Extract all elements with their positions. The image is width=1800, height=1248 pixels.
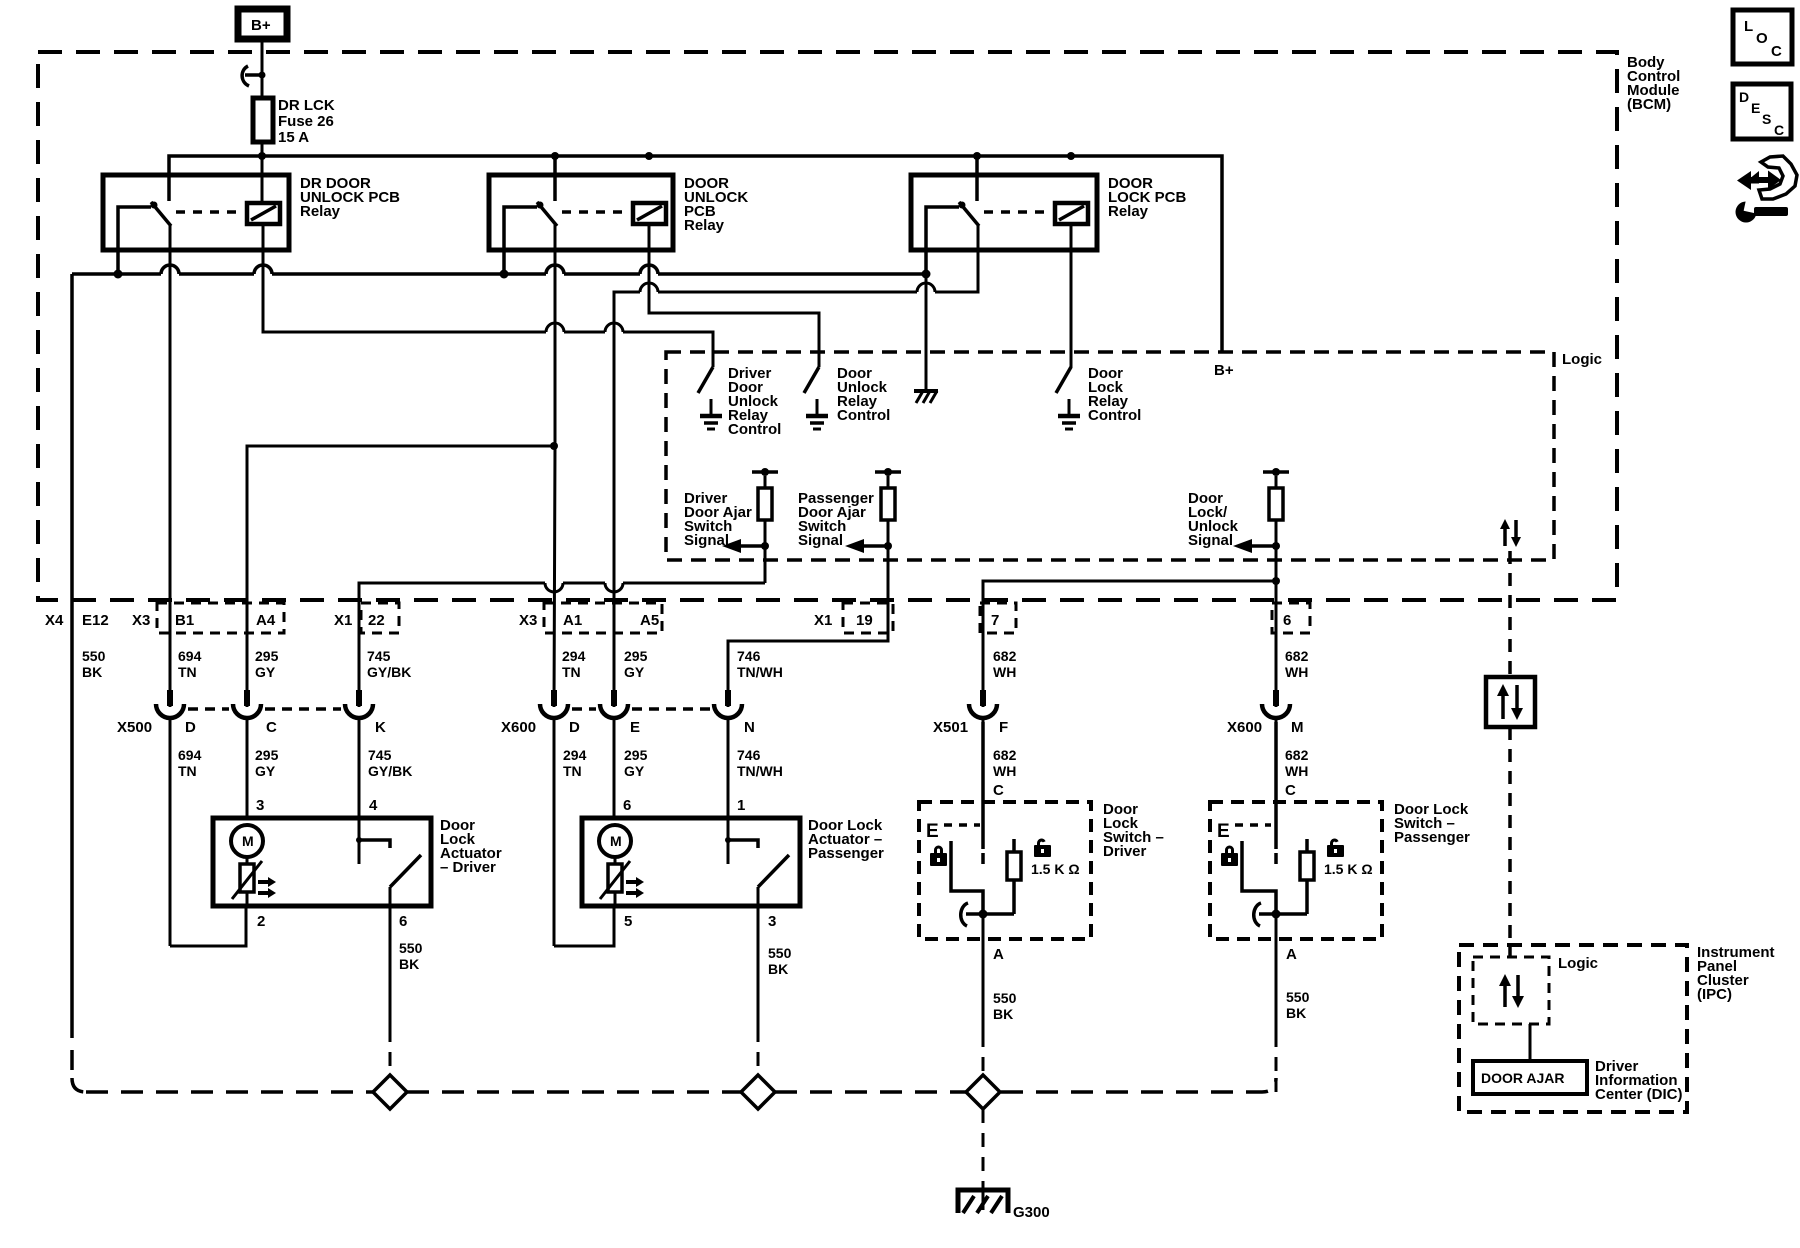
svg-text:550: 550	[399, 940, 423, 956]
padlock open passenger	[1327, 839, 1344, 857]
svg-text:B+: B+	[1214, 362, 1234, 379]
svg-text:6: 6	[623, 797, 631, 814]
svg-text:Logic: Logic	[1558, 955, 1598, 972]
svg-text:BK: BK	[768, 961, 788, 977]
label 550 BK passenger actuator	[768, 945, 792, 977]
lock switch passenger junction bar	[1259, 912, 1307, 916]
svg-text:550: 550	[82, 648, 106, 664]
svg-text:B+: B+	[251, 17, 271, 34]
wire diamond to G300	[982, 1109, 985, 1182]
wire ajar driver to pin22 jog	[359, 583, 765, 707]
svg-text:682: 682	[1285, 747, 1309, 763]
svg-text:745: 745	[367, 648, 391, 664]
padlock closed passenger	[1221, 846, 1238, 867]
svg-text:294: 294	[562, 648, 586, 664]
splice diamond passenger actuator	[741, 1075, 775, 1109]
svg-text:19: 19	[856, 612, 873, 629]
connector X600 M labels	[1227, 719, 1304, 736]
svg-text:3: 3	[768, 913, 776, 930]
svg-text:TN: TN	[563, 763, 582, 779]
svg-text:Signal: Signal	[1188, 532, 1233, 549]
node lock switch passenger common	[1272, 910, 1281, 919]
svg-text:(IPC): (IPC)	[1697, 986, 1732, 1003]
IPC label	[1697, 944, 1775, 1003]
svg-text:GY: GY	[255, 763, 276, 779]
svg-text:WH: WH	[1285, 763, 1308, 779]
wire fuse to B+ bus	[261, 142, 264, 203]
svg-text:WH: WH	[993, 763, 1016, 779]
relay K3 actuation dashed link	[984, 210, 1052, 214]
connector X500 labels	[117, 719, 386, 736]
svg-text:GY/BK: GY/BK	[367, 664, 411, 680]
transistor switch door-lock relay control	[1056, 352, 1080, 429]
relay K2 coil	[633, 203, 666, 224]
lock switch passenger input wire	[1274, 722, 1278, 864]
svg-text:682: 682	[993, 648, 1017, 664]
relay K2 actuation dashed link	[562, 210, 630, 214]
relay K1 coil	[247, 203, 280, 224]
svg-text:1: 1	[737, 797, 745, 814]
relay K1 switch arm	[118, 202, 171, 275]
node fuse/bus junction	[258, 152, 266, 160]
label driver door unlock relay control	[728, 365, 781, 438]
svg-text:C: C	[1285, 782, 1296, 799]
lock switch driver blade	[961, 903, 968, 926]
wire relay3 arm to logic chassis ground	[925, 274, 928, 389]
svg-text:746: 746	[737, 648, 761, 664]
svg-text:TN: TN	[562, 664, 581, 680]
svg-text:GY: GY	[624, 664, 645, 680]
wire relay3 coil to door-lock control	[1070, 224, 1073, 368]
wire serial data box to IPC dashed	[1508, 727, 1512, 957]
svg-text:D: D	[185, 719, 196, 736]
svg-text:E: E	[630, 719, 640, 736]
wire relay arms common bus	[72, 272, 926, 276]
svg-text:6: 6	[1283, 612, 1291, 629]
relay K1 DR DOOR UNLOCK PCB box	[103, 175, 289, 250]
svg-text:1.5 K Ω: 1.5 K Ω	[1324, 861, 1373, 877]
svg-text:295: 295	[255, 747, 279, 763]
arrow passenger door ajar switch signal	[845, 539, 888, 553]
wire ground-side E12 drop (550 BK)	[72, 274, 86, 1092]
svg-text:745: 745	[368, 747, 392, 763]
door lock switch passenger dashed box	[1210, 802, 1382, 939]
door lock switch driver dashed box	[919, 802, 1091, 939]
thermistor driver	[232, 857, 262, 906]
node arm bus relay2	[500, 270, 509, 279]
node lock switch driver common	[979, 910, 988, 919]
node bus to relay3 contact	[973, 152, 981, 160]
icon LOC legend box	[1733, 10, 1792, 64]
in-line connector clip on B+ feed	[242, 66, 265, 86]
label 550 BK passenger lock switch	[1286, 989, 1310, 1021]
svg-text:K: K	[375, 719, 386, 736]
svg-text:550: 550	[768, 945, 792, 961]
connector X600 pin D	[540, 690, 568, 946]
relay K2 DOOR UNLOCK PCB box	[489, 175, 673, 250]
wire driver lock switch pin A ground drop	[982, 939, 985, 1073]
svg-text:X600: X600	[1227, 719, 1262, 736]
actuator driver pin labels below	[257, 913, 407, 930]
BCM module dashed box	[38, 52, 1617, 600]
DIC label	[1595, 1058, 1683, 1103]
wire lock/unlock down to pin6	[1275, 581, 1278, 707]
DOOR AJAR indicator box	[1473, 1061, 1587, 1094]
svg-text:Passenger: Passenger	[808, 845, 884, 862]
fuse 26 DR LCK 15A	[253, 97, 335, 146]
svg-text:TN: TN	[178, 664, 197, 680]
node bus to relay3 coil	[1067, 152, 1075, 160]
relay K1 actuation dashed link	[176, 210, 244, 214]
resistor passenger door ajar pull-up	[875, 468, 901, 641]
svg-text:N: N	[744, 719, 755, 736]
svg-text:– Driver: – Driver	[440, 859, 496, 876]
svg-text:L: L	[1744, 18, 1753, 35]
relay K2 switch arm	[504, 202, 557, 275]
svg-text:C: C	[266, 719, 277, 736]
svg-text:TN: TN	[178, 763, 197, 779]
svg-text:7: 7	[991, 612, 999, 629]
svg-text:M: M	[1291, 719, 1304, 736]
node passenger ajar signal tap	[884, 542, 892, 550]
wire BCM serial data to IPC upper dashed	[1508, 551, 1512, 677]
svg-text:GY: GY	[255, 664, 276, 680]
svg-text:B1: B1	[175, 612, 194, 629]
connector X501 labels	[933, 719, 1008, 736]
lock switch passenger blade	[1254, 903, 1261, 926]
svg-text:694: 694	[178, 648, 202, 664]
wire branch to pin A4	[247, 446, 554, 707]
pin box 22	[361, 603, 399, 633]
relay K2 label	[684, 175, 748, 234]
ground G300 symbol	[958, 1182, 1008, 1213]
label passenger door ajar switch signal	[798, 490, 874, 549]
relay K3 DOOR LOCK PCB box	[911, 175, 1097, 250]
actuator passenger position switch	[725, 818, 789, 906]
resistor door lock/unlock pull-up	[1263, 468, 1289, 581]
icon wrench	[1736, 197, 1789, 222]
actuator driver label	[440, 817, 502, 876]
lock switch passenger E terminal	[1217, 821, 1271, 842]
svg-text:Driver: Driver	[1103, 843, 1147, 860]
svg-text:22: 22	[368, 612, 385, 629]
svg-text:D: D	[569, 719, 580, 736]
svg-text:S: S	[1762, 111, 1771, 127]
svg-text:Relay: Relay	[684, 217, 725, 234]
svg-text:BK: BK	[1286, 1005, 1306, 1021]
wire driver actuator pin6 ground drop	[389, 906, 392, 1073]
connector X501 pin F	[969, 690, 997, 802]
actuator pin labels above boxes	[256, 797, 745, 814]
connector X600 labels	[501, 719, 755, 736]
svg-text:F: F	[999, 719, 1008, 736]
wire lock switch driver to pin A	[982, 914, 985, 939]
svg-text:682: 682	[1285, 648, 1309, 664]
icon DESC legend box	[1733, 84, 1791, 139]
svg-text:Control: Control	[837, 407, 890, 424]
label door lock relay control	[1088, 365, 1141, 424]
wire labels lower row	[178, 747, 1309, 779]
relay K3 switch arm	[926, 202, 979, 275]
svg-text:Center (DIC): Center (DIC)	[1595, 1086, 1683, 1103]
svg-text:295: 295	[255, 648, 279, 664]
wire driver motor return loop	[170, 906, 246, 946]
pin box A1 A5	[544, 603, 662, 633]
svg-text:295: 295	[624, 648, 648, 664]
svg-text:X501: X501	[933, 719, 968, 736]
arrow driver door ajar switch signal	[722, 539, 765, 553]
splice diamond G300 drop	[966, 1075, 1000, 1109]
direction arrows driver	[258, 877, 276, 898]
svg-text:E: E	[1217, 821, 1230, 842]
svg-text:G300: G300	[1013, 1204, 1050, 1221]
svg-text:BK: BK	[82, 664, 102, 680]
connector X500 pin C	[233, 690, 261, 818]
wire pin7 down to X501 F	[982, 600, 985, 707]
splice diamond driver actuator	[373, 1075, 407, 1109]
lock switch driver input wire	[981, 722, 985, 864]
svg-text:Fuse 26: Fuse 26	[278, 113, 334, 130]
connector X500 pin D	[156, 690, 184, 946]
battery B+ terminal box	[238, 9, 287, 39]
svg-text:3: 3	[256, 797, 264, 814]
svg-text:BK: BK	[399, 956, 419, 972]
node arm bus relay1	[114, 270, 123, 279]
lock switch driver lock contact	[951, 841, 983, 914]
arrow door lock/unlock signal	[1233, 539, 1276, 553]
svg-text:X1: X1	[334, 612, 352, 629]
svg-text:A4: A4	[256, 612, 276, 629]
wire B+ feed down from terminal	[261, 42, 264, 98]
svg-text:Signal: Signal	[684, 532, 729, 549]
svg-text:WH: WH	[1285, 664, 1308, 680]
lock switch passenger lock contact	[1242, 841, 1276, 914]
svg-text:Relay: Relay	[1108, 203, 1149, 220]
svg-text:WH: WH	[993, 664, 1016, 680]
wire ajar passenger pin19 jog to X600 N	[728, 625, 888, 707]
svg-text:4: 4	[369, 797, 378, 814]
motor M passenger	[599, 825, 631, 857]
svg-text:GY/BK: GY/BK	[368, 763, 412, 779]
svg-text:294: 294	[563, 747, 587, 763]
logic dashed box	[666, 352, 1554, 560]
door lock actuator passenger box	[582, 818, 800, 906]
connector X600 pin E	[600, 690, 628, 818]
svg-text:A5: A5	[640, 612, 659, 629]
chassis ground in logic box	[914, 391, 938, 403]
connector X600 pin N	[714, 690, 742, 818]
actuator passenger pin labels below	[624, 913, 776, 930]
wire passenger motor return loop	[554, 906, 614, 946]
node lock/unlock signal tap	[1272, 542, 1280, 550]
svg-text:X600: X600	[501, 719, 536, 736]
svg-text:6: 6	[399, 913, 407, 930]
serial data box with arrows	[1486, 677, 1535, 727]
ground bus dashed bottom	[86, 1078, 1276, 1092]
svg-text:M: M	[242, 833, 254, 849]
resistor driver door ajar pull-up	[752, 468, 778, 583]
svg-text:M: M	[610, 833, 622, 849]
relay K3 coil	[1055, 203, 1088, 224]
padlock closed driver	[930, 846, 947, 867]
IPC dashed box	[1459, 945, 1687, 1112]
svg-text:X3: X3	[132, 612, 150, 629]
BCM label	[1627, 54, 1680, 113]
padlock open driver	[1034, 839, 1051, 857]
label door unlock relay control	[837, 365, 890, 424]
svg-text:295: 295	[624, 747, 648, 763]
wire labels upper row	[82, 648, 1309, 680]
svg-text:Relay: Relay	[300, 203, 341, 220]
svg-text:Logic: Logic	[1562, 351, 1602, 368]
svg-text:A: A	[993, 946, 1004, 963]
actuator passenger label	[808, 817, 884, 862]
relay K3 contact feed stub	[975, 156, 979, 201]
relay K1 label	[300, 175, 400, 220]
transistor switch driver-door-unlock relay control	[698, 352, 722, 429]
svg-text:A1: A1	[563, 612, 582, 629]
svg-text:D: D	[1739, 89, 1749, 105]
label 550 BK driver actuator	[399, 940, 423, 972]
svg-text:BK: BK	[993, 1006, 1013, 1022]
node bus to relay2 coil	[645, 152, 653, 160]
thermistor passenger	[600, 857, 630, 906]
pin box 6	[1272, 603, 1310, 633]
icon data link communication	[1737, 156, 1797, 199]
node branch A1/A4	[550, 442, 558, 450]
svg-text:C: C	[1774, 122, 1784, 138]
svg-text:2: 2	[257, 913, 265, 930]
svg-text:GY: GY	[624, 763, 645, 779]
node driver ajar signal tap	[761, 542, 769, 550]
svg-text:A: A	[1286, 946, 1297, 963]
motor M driver	[231, 825, 263, 857]
pin box 7	[980, 603, 1016, 633]
svg-text:E: E	[1751, 100, 1760, 116]
svg-text:C: C	[1771, 43, 1782, 60]
label door lock/unlock signal	[1188, 490, 1239, 549]
relay K3 label	[1108, 175, 1187, 220]
label driver door ajar switch signal	[684, 490, 752, 549]
pin C labels above lock switches	[993, 782, 1296, 799]
svg-text:X500: X500	[117, 719, 152, 736]
svg-text:E12: E12	[82, 612, 109, 629]
svg-text:X4: X4	[45, 612, 64, 629]
svg-text:550: 550	[993, 990, 1017, 1006]
lock switch passenger label	[1394, 801, 1470, 846]
wire IPC logic to DIC	[1529, 1024, 1532, 1061]
pin row labels	[45, 612, 1291, 629]
wire relay2 contact to pin A1	[554, 224, 555, 707]
node join on lock/unlock wire	[1272, 577, 1280, 585]
wire passenger actuator pin3 ground drop	[757, 906, 760, 1073]
connector X600 pin M	[1262, 690, 1290, 802]
svg-text:TN/WH: TN/WH	[737, 763, 783, 779]
node arm bus relay3 ground drop	[922, 270, 931, 279]
svg-text:746: 746	[737, 747, 761, 763]
wire relay3 contact to pin A5 (line B)	[614, 224, 978, 707]
resistor 1.5k passenger	[1300, 839, 1314, 914]
svg-text:O: O	[1756, 30, 1768, 47]
svg-text:694: 694	[178, 747, 202, 763]
actuator driver position switch	[356, 818, 421, 906]
lock switch driver E terminal	[926, 821, 980, 842]
wire relay1 contact to pin B1	[169, 224, 172, 707]
resistor 1.5k driver	[1007, 839, 1021, 914]
svg-text:5: 5	[624, 913, 632, 930]
svg-text:682: 682	[993, 747, 1017, 763]
connector X600 dashed gang line	[572, 707, 710, 711]
hop bumps on arm bus	[161, 265, 658, 274]
connector X500 pin K	[345, 690, 373, 818]
wire lock switch passenger to pin A	[1275, 914, 1278, 939]
lock switch driver label	[1103, 801, 1164, 860]
svg-text:TN/WH: TN/WH	[737, 664, 783, 680]
wire pin7 to pin6 join	[983, 581, 1276, 600]
svg-text:E: E	[926, 821, 939, 842]
serial data arrows in logic box	[1500, 519, 1521, 547]
svg-text:Passenger: Passenger	[1394, 829, 1470, 846]
IPC logic dashed box	[1473, 957, 1549, 1024]
svg-text:X1: X1	[814, 612, 832, 629]
svg-text:Signal: Signal	[798, 532, 843, 549]
pin box 19	[843, 603, 893, 633]
pin box B1 A4	[157, 603, 284, 633]
svg-text:DR LCK: DR LCK	[278, 97, 335, 114]
lock switch driver junction bar	[966, 912, 1014, 916]
wire relay1 coil to driver-unlock control (line C)	[263, 224, 713, 352]
wire relay2 coil to door-unlock control (line D)	[649, 224, 819, 352]
svg-text:15 A: 15 A	[278, 129, 309, 146]
svg-text:Control: Control	[728, 421, 781, 438]
svg-text:C: C	[993, 782, 1004, 799]
svg-text:550: 550	[1286, 989, 1310, 1005]
svg-text:X3: X3	[519, 612, 537, 629]
svg-text:Control: Control	[1088, 407, 1141, 424]
svg-text:(BCM): (BCM)	[1627, 96, 1671, 113]
node bus to relay2 contact	[551, 152, 559, 160]
B+ bus across relays into logic	[169, 156, 1222, 352]
svg-text:1.5 K Ω: 1.5 K Ω	[1031, 861, 1080, 877]
label 550 BK driver lock switch	[993, 990, 1017, 1022]
wire passenger lock switch pin A ground drop	[1275, 939, 1278, 1092]
transistor switch door-unlock relay control	[804, 352, 828, 429]
door lock actuator driver box	[213, 818, 431, 906]
direction arrows passenger	[626, 877, 644, 898]
connector X500 dashed gang line	[188, 707, 341, 711]
svg-text:DOOR AJAR: DOOR AJAR	[1481, 1070, 1565, 1086]
relay K2 contact feed stub	[553, 156, 557, 201]
